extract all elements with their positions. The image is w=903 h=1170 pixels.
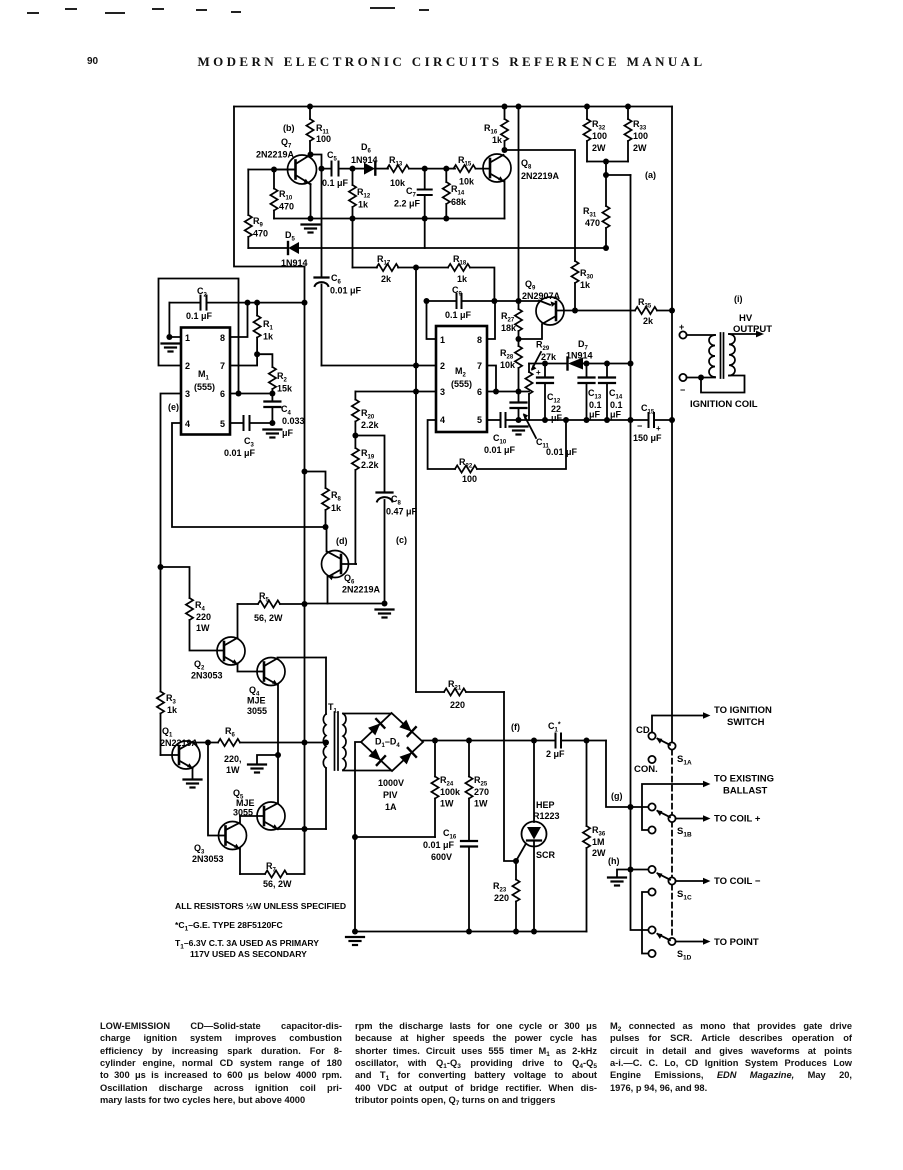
terminal + of ignition coil [679,331,686,338]
wire: S1D wiper to point arrow [676,938,711,945]
resistor R7 56 2W [240,861,305,889]
svg-text:C10: C10 [493,433,507,446]
switch S1C contact upper [648,866,655,873]
svg-text:SCR: SCR [536,850,556,860]
svg-text:8: 8 [477,335,482,345]
node: rail junctions [308,216,314,222]
svg-text:R32: R32 [592,119,606,132]
svg-text:2N2219A: 2N2219A [342,585,381,595]
node: T1 center tap [323,740,329,746]
svg-text:Q7: Q7 [281,137,292,150]
svg-text:R25: R25 [474,775,488,788]
wire: long vertical bus L (x=304.5) [304,267,306,875]
svg-text:T1: T1 [328,702,338,715]
svg-text:0.1: 0.1 [610,400,623,410]
node: coil common [698,375,704,381]
svg-text:0.01 μF: 0.01 μF [423,840,455,850]
svg-text:−: − [637,421,642,431]
svg-text:μF: μF [589,410,601,420]
svg-text:D1–D4: D1–D4 [375,737,400,750]
svg-text:2.2k: 2.2k [361,420,380,430]
wire: M1 pin3 lead to left bus [161,394,182,692]
resistor R13 10k [387,155,425,188]
node: C4 bottom / pin5 line [269,420,275,426]
wire: M2 pin8 lead [487,301,495,339]
svg-text:68k: 68k [451,197,467,207]
diode D7 1N914 [566,339,593,370]
svg-text:R22: R22 [459,457,473,470]
switch S1A contact CON [648,756,655,763]
svg-text:1k: 1k [263,332,274,342]
svg-text:R24: R24 [440,775,454,788]
node: left leg / C16 return [352,834,358,840]
svg-text:0.01 μF: 0.01 μF [330,286,362,296]
svg-text:2N2219A: 2N2219A [256,150,295,160]
svg-text:100: 100 [592,131,607,141]
svg-text:R8: R8 [331,490,342,503]
svg-text:1k: 1k [580,280,591,290]
svg-text:270: 270 [474,787,489,797]
wire: S1B wiper to coil+ arrow [676,815,711,822]
node: ground rail to bus B [669,417,675,423]
svg-text:PIV: PIV [383,790,398,800]
resistor R11 100 [306,107,331,155]
wire: D5 rail to R31 bottom [299,247,606,249]
node: pin1 / ground [166,334,172,340]
switch S1A contact CD [648,732,655,739]
node: R31 bottom on D5 rail [603,245,609,251]
scan marks at page top [28,8,428,13]
svg-text:0.01 μF: 0.01 μF [484,445,516,455]
wire: S1C wiper to coil- arrow [676,878,711,885]
svg-text:0.01 μF: 0.01 μF [224,448,256,458]
wire: R12 bottom continues to R17 corner [352,219,354,268]
capacitor C9 0.1uF [427,285,542,320]
resistor R33 100 2W [624,107,648,162]
svg-text:0.01 μF: 0.01 μF [546,447,578,457]
svg-text:(c): (c) [396,535,407,545]
svg-text:15k: 15k [277,384,293,394]
svg-text:R35: R35 [638,297,652,310]
svg-text:2W: 2W [592,848,606,858]
wire: left border of loop down to bus corner [234,107,305,267]
wire: S1B lower contact to existing ballast arrow [642,781,711,830]
resistor R24 100k 1W [431,741,461,838]
resistor R25 270 1W [465,741,489,841]
node: C2 wire to bus L [302,300,308,306]
transistor Q6 2N2219A [322,527,381,604]
svg-text:R1223: R1223 [533,811,560,821]
switch S1D wiper [668,938,675,945]
svg-text:TO IGNITION: TO IGNITION [714,705,772,716]
svg-text:R23: R23 [493,881,507,894]
wire: - terminal to coil bottom [687,377,715,379]
svg-text:1A: 1A [385,802,397,812]
node: R8 bottom / pin4 wire / Q6 collector [323,524,329,530]
svg-text:TO EXISTING: TO EXISTING [714,774,774,785]
ground at Q1 emitter [184,780,202,788]
switch S1C wiper [668,877,675,884]
svg-text:R1: R1 [263,319,274,332]
node: pin6 junctions [493,389,499,395]
svg-text:2: 2 [440,361,445,371]
svg-text:18k: 18k [501,323,517,333]
svg-text:C3: C3 [244,436,255,449]
svg-text:R9: R9 [253,216,264,229]
svg-text:5: 5 [220,419,225,429]
resistor R19 2.2k [352,436,380,565]
resistor R2 15k [257,354,293,393]
svg-text:M1: M1 [198,369,210,382]
svg-text:0.1: 0.1 [589,400,602,410]
svg-text:2k: 2k [643,316,654,326]
capacitor C10 0.01uF on M2 pin5 [484,413,648,455]
wire: D7 rail y=363.5 [529,363,631,365]
node: Q8 collector / R16 [502,147,508,153]
wire: R32/R33 bottom tie [587,161,628,163]
wire: (h) ground to S1C upper contact [617,870,648,877]
resistor R8 1k [305,472,343,528]
svg-text:R29: R29 [536,340,550,353]
svg-text:(b): (b) [283,123,295,133]
resistor R20 2.2k [352,392,380,436]
svg-text:3055: 3055 [233,808,253,818]
svg-text:C1*: C1* [548,721,561,734]
svg-text:3: 3 [185,389,190,399]
svg-text:C2: C2 [197,286,208,299]
svg-text:10k: 10k [390,178,406,188]
diode D5 1N914 [248,230,307,268]
node: pin8 riser on C2 wire [245,300,251,306]
capacitor C8 0.47uF [355,436,417,604]
svg-text:470: 470 [253,229,268,239]
svg-text:R10: R10 [279,189,293,202]
wire: C6 riser to M2 pin2 [322,365,437,367]
node: C8 / ground [382,601,388,607]
caption column 2 [355,1020,597,1106]
node: C7 top [422,166,428,172]
svg-text:CON.: CON. [634,764,658,775]
ignition coil core [721,333,724,378]
resistor R4 220 1W [161,567,225,651]
resistor R32 100 2W [583,107,607,162]
resistor R21 220 [416,679,504,710]
svg-text:1M: 1M [592,837,605,847]
resistor R28 10k [500,339,522,392]
svg-text:(g): (g) [611,791,623,801]
svg-text:(i): (i) [734,294,743,304]
wire: M2 pin6 lead to R29 bottom [487,391,529,393]
svg-text:100: 100 [633,131,648,141]
wire: link S1C lower to S1D lower [642,892,648,954]
wire: M1 pin7 lead [230,354,257,365]
wire: vertical bus from rail to C9 line (x=518.5) [518,107,520,302]
svg-text:C6: C6 [331,273,342,286]
switch S1D arm [656,933,670,940]
svg-text:R6: R6 [225,726,236,739]
capacitor C2 0.1uF [169,286,304,321]
switch S1B wiper [668,815,675,822]
svg-text:3055: 3055 [247,706,267,716]
capacitor C7 2.2uF [394,169,432,219]
svg-text:2N3053: 2N3053 [191,671,223,681]
capacitor C14 0.1uF [599,364,623,421]
wire: CD contact to ignition switch arrow [652,712,711,732]
node: R10 top on base line [271,167,277,173]
ground below C8 [376,610,394,618]
svg-text:2N2907A: 2N2907A [522,291,561,301]
wire: Q7 collector jog to C5 riser [311,155,322,278]
svg-text:100: 100 [316,134,331,144]
bridge rectifier D1-D4 diamond [361,713,423,812]
capacitor C13 0.1uF [579,364,602,421]
ignition coil secondary winding [729,334,735,376]
svg-text:(h): (h) [608,856,620,866]
wire: coil return box [701,376,745,393]
wire: riser x=416 from R17 down to R21 [415,268,417,693]
svg-text:*C1–G.E. TYPE 28F5120FC: *C1–G.E. TYPE 28F5120FC [175,920,283,933]
wire: M1 pin6 lead [230,393,272,395]
caption column 3 [610,1020,852,1094]
transistor Q2 2N3053 [191,604,257,681]
variable resistor R29 27k [525,340,557,421]
svg-text:μF: μF [610,410,622,420]
diode D2 (top-right arm) [399,720,411,732]
svg-text:−: − [680,385,685,395]
svg-text:1N914: 1N914 [566,351,593,361]
wire: stub from ground rail down to D5 rail [424,219,426,249]
svg-text:MJE: MJE [236,798,255,808]
switch S1C arm [656,873,670,880]
svg-text:2N3053: 2N3053 [192,854,224,864]
IC M1 (555) box [181,328,230,435]
ignition coil primary winding [709,335,715,377]
svg-text:HV: HV [739,313,753,324]
svg-text:2: 2 [185,361,190,371]
svg-text:2N2219A: 2N2219A [521,171,560,181]
switch S1B contact lower [648,826,655,833]
wire: ground spur [257,755,278,763]
node: R20/R19/C8 junction [352,433,358,439]
node: Q5 emitter wire over bus L [302,826,308,832]
svg-text:56, 2W: 56, 2W [254,613,283,623]
node: R31 top junction [603,159,609,165]
resistor R5 56 2W [238,591,305,623]
svg-text:Q9: Q9 [525,279,536,292]
svg-text:C8: C8 [391,494,402,507]
svg-text:27k: 27k [541,352,557,362]
ground at bottom bus [346,937,364,945]
svg-text:R30: R30 [580,268,594,281]
node: ground rail junctions [516,417,522,423]
SCR HEP R1223 [516,741,560,932]
svg-text:100k: 100k [440,787,461,797]
node: R1 top [254,300,260,306]
svg-text:C13: C13 [588,388,602,401]
node: Q7 collector / R11 [308,152,314,158]
svg-text:1W: 1W [474,799,488,809]
transformer T1 primary winding [323,658,337,830]
node: C5 left [319,166,325,172]
page number [87,56,98,67]
wire: long vertical bus A (x=630.5) [631,175,650,930]
node: riser junctions at M2 pin2/pin3 [413,363,419,369]
node: D7 rail junctions [542,361,548,367]
switch S1D contact upper [648,926,655,933]
svg-text:(f): (f) [511,722,520,732]
resistor R17 2k [353,254,417,284]
svg-text:6: 6 [220,389,225,399]
resistor R12 1k [349,169,371,219]
svg-text:C12: C12 [547,392,561,405]
svg-text:1W: 1W [440,799,454,809]
resistor R30 1k [571,261,593,310]
wire: C2 left down to M1 pin1 [169,303,181,337]
svg-text:R27: R27 [501,311,515,324]
svg-text:C15: C15 [641,403,655,416]
capacitor C6 0.01uF on riser [315,273,362,366]
wire: bridge minus vertex down left leg [355,742,361,932]
svg-text:IGNITION COIL: IGNITION COIL [690,399,758,410]
svg-text:Q1: Q1 [162,726,173,739]
svg-text:R18: R18 [453,254,467,267]
svg-text:10k: 10k [459,177,475,187]
node: bus L / R8 wire [302,469,308,475]
svg-text:1k: 1k [167,705,178,715]
transformer T1 core [335,712,339,770]
node: bottom bus junctions [352,929,358,935]
svg-text:R31: R31 [583,206,597,219]
capacitor C11 0.01uF [511,392,578,458]
svg-text:10k: 10k [500,360,516,370]
wire: Q9 base rail to bus B [575,310,635,312]
capacitor C1 2uF [546,721,606,759]
svg-text:1W: 1W [226,765,240,775]
svg-text:117V USED AS SECONDARY: 117V USED AS SECONDARY [190,949,307,959]
svg-text:μF: μF [551,413,563,423]
svg-text:R12: R12 [357,187,371,200]
resistor R9 470 [245,170,268,249]
diode D6 1N914 [351,142,388,175]
svg-text:1k: 1k [457,274,468,284]
svg-text:R19: R19 [361,448,375,461]
wire: right border bus B (x=672) [671,107,673,744]
svg-text:3: 3 [440,387,445,397]
node: Q4 emitter / ground spur [275,752,281,758]
resistor R10 470 [270,170,294,219]
wire: (g) branch from DC rail to S1B [606,741,648,808]
svg-text:0.1 μF: 0.1 μF [322,178,349,188]
wire: HV output arrow [729,331,764,338]
svg-text:TO COIL +: TO COIL + [714,814,761,825]
svg-text:R28: R28 [500,348,514,361]
svg-text:+: + [656,424,661,433]
resistor R1 1k [254,303,275,355]
node: R27/R28/Q9 collector [516,336,522,342]
svg-text:R2: R2 [277,371,288,384]
svg-text:4: 4 [440,415,445,425]
svg-text:BALLAST: BALLAST [723,786,768,797]
wire: dashed gang line of S1 [671,750,673,938]
svg-text:1000V: 1000V [378,778,404,788]
svg-text:(555): (555) [194,382,215,392]
svg-text:R3: R3 [166,693,177,706]
svg-text:5: 5 [477,415,482,425]
switch S1B arm [656,810,670,817]
node: left bus / R4 takeoff [158,564,164,570]
svg-text:1N914: 1N914 [281,258,308,268]
node: R12 top [350,166,356,172]
resistor R14 68k [443,169,467,219]
svg-text:D6: D6 [361,142,372,155]
transistor Q4 MJE3055 [247,658,326,756]
transistor Q8 2N2219A [483,154,560,219]
svg-text:(e): (e) [168,402,179,412]
node: pin6 junctions [236,391,242,397]
svg-text:R33: R33 [633,119,647,132]
svg-text:R4: R4 [195,600,206,613]
svg-text:R15: R15 [458,155,472,168]
node: C9 wire junctions [424,298,430,304]
svg-text:470: 470 [279,202,294,212]
svg-text:MJE: MJE [247,696,266,706]
node: R5 right on bus L [302,601,308,607]
svg-text:ALL RESISTORS ½W UNLESS SPECIF: ALL RESISTORS ½W UNLESS SPECIFIED [175,901,346,911]
wire: M1 pin4 lead down and right to R8 bottom [172,423,326,527]
node: R14 top [443,166,449,172]
resistor R31 470 [583,175,610,248]
node: R30 bottom / Q9 base [572,308,578,314]
capacitor C12 22uF [536,364,563,424]
wire: DC rail from bridge [423,740,555,742]
svg-text:0.1 μF: 0.1 μF [186,311,213,321]
svg-text:HEP: HEP [536,800,555,810]
svg-text:OUTPUT: OUTPUT [733,324,772,335]
svg-text:S1C: S1C [677,889,692,902]
transistor Q3 2N3053 [192,816,247,874]
svg-text:SWITCH: SWITCH [727,717,765,728]
svg-text:(555): (555) [451,379,472,389]
capacitor C3 0.01uF on M1 pin5 [224,416,272,458]
svg-text:S1A: S1A [677,754,692,767]
capacitor C5 0.1uF [322,150,353,188]
wire: C7 to R14 top [425,168,447,170]
wire: Q8 collector node to R30 riser [505,150,576,261]
wire: bus A jog from R32/R33 node [606,162,631,176]
svg-text:2.2k: 2.2k [361,460,380,470]
resistor R35 2k [635,297,672,326]
diode D1 (top-left arm) [368,723,380,735]
svg-text:2W: 2W [633,143,647,153]
node: DC rail junctions [432,738,438,744]
svg-text:2 μF: 2 μF [546,749,565,759]
ground below C4 [263,430,281,438]
switch S1A arm [656,738,670,745]
resistor R22 100 (M2 pin4) [428,420,566,484]
svg-text:R21: R21 [448,679,462,692]
switch S1B contact upper [648,803,655,810]
capacitor C15 150uF [633,403,672,443]
wire: VCC loop around C2 (pin2 side to pin6 riser) [159,279,239,394]
diode D4 (bottom-right arm) [400,752,412,764]
ground at M1 pin1 [162,344,180,352]
node: (h) wire over bus A [628,867,634,873]
resistor R15 10k [446,155,490,187]
svg-text:(d): (d) [336,536,348,546]
node: bus L on R6 wire [302,740,308,746]
diode D3 (bottom-left arm) [369,749,381,761]
svg-text:100: 100 [462,474,477,484]
